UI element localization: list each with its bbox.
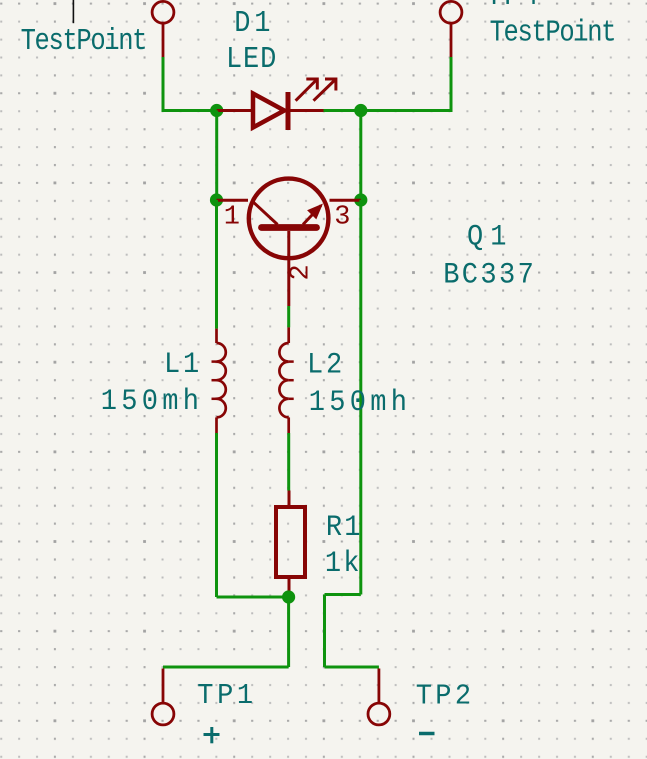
test point TP1 value label "+" [204, 727, 220, 743]
junction [354, 104, 367, 117]
wire [359, 200, 362, 595]
wire [215, 433, 218, 597]
transistor Q1 [217, 179, 361, 306]
wire [450, 57, 453, 112]
wire [215, 200, 218, 329]
test point (top-left) [152, 1, 174, 57]
svg-text:TP1: TP1 [197, 680, 256, 712]
wire [215, 111, 218, 201]
svg-text:150mh: 150mh [101, 386, 203, 418]
svg-text:1k: 1k [325, 548, 362, 580]
junction [354, 193, 367, 206]
wire [217, 596, 289, 599]
wire [359, 111, 362, 201]
resistor R1 [276, 491, 305, 596]
test point TP2 value label "-" [419, 732, 435, 736]
wire [287, 433, 290, 491]
svg-text:LED: LED [226, 42, 277, 77]
test point TP2 [368, 669, 390, 725]
svg-text:BC337: BC337 [443, 259, 536, 291]
test point (top-right) [440, 1, 462, 57]
wire [162, 57, 165, 111]
wire [324, 109, 452, 112]
inductor L2 [279, 327, 293, 433]
svg-text:150mh: 150mh [309, 387, 411, 419]
wire [162, 109, 217, 112]
junction [210, 104, 223, 117]
svg-text:L1: L1 [164, 349, 202, 381]
svg-text:1: 1 [224, 203, 240, 233]
svg-text:L2: L2 [307, 350, 345, 382]
svg-text:TP2: TP2 [416, 681, 475, 713]
wire [323, 595, 326, 668]
wire [163, 666, 289, 669]
junction [210, 193, 223, 206]
svg-text:Q1: Q1 [467, 222, 513, 254]
svg-text:R1: R1 [326, 512, 363, 544]
svg-text:2: 2 [287, 264, 317, 280]
svg-text:3: 3 [334, 203, 350, 233]
wire [287, 597, 290, 667]
test point TP1 [152, 669, 174, 725]
wire [325, 593, 361, 596]
svg-text:TP4: TP4 [486, 0, 541, 13]
junction [282, 590, 295, 603]
inductor L1 [212, 329, 226, 433]
wire [287, 306, 290, 327]
svg-text:D1: D1 [234, 5, 274, 40]
svg-text:TestPoint: TestPoint [490, 16, 616, 50]
svg-text:TestPoint: TestPoint [21, 25, 147, 59]
wire stub (black, top-left edge) [72, 0, 74, 23]
LED D1 [217, 79, 336, 130]
wire [325, 666, 379, 669]
